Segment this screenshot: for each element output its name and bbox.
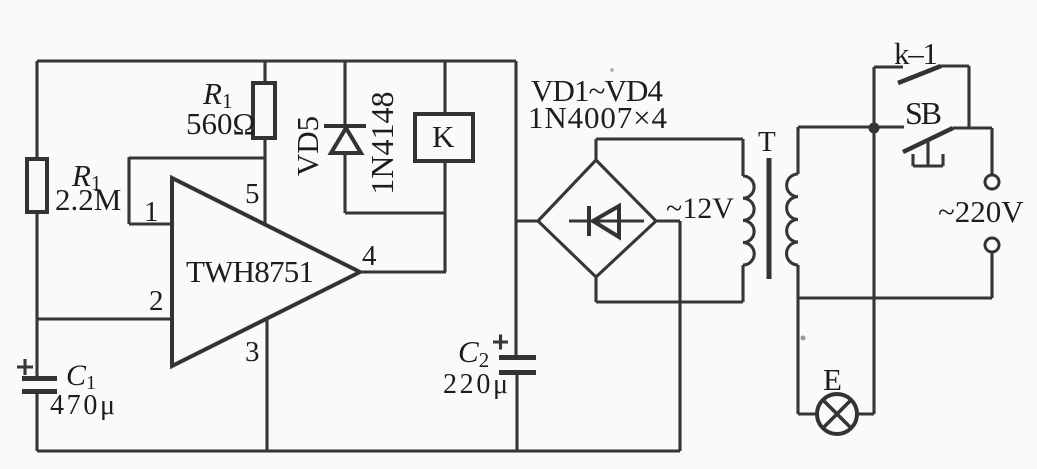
svg-text:2.2M: 2.2M — [55, 182, 121, 217]
svg-text:k–1: k–1 — [894, 36, 938, 71]
svg-text:~12V: ~12V — [666, 192, 734, 225]
svg-text:SB: SB — [905, 95, 942, 131]
svg-text:220μ: 220μ — [443, 369, 508, 400]
svg-text:~220V: ~220V — [938, 194, 1024, 229]
svg-text:VD5: VD5 — [290, 116, 325, 176]
svg-text:4: 4 — [362, 240, 377, 272]
svg-text:K: K — [432, 119, 455, 154]
svg-text:T: T — [758, 126, 776, 158]
svg-text:1N4007×4: 1N4007×4 — [528, 100, 668, 135]
svg-text:E: E — [823, 362, 842, 397]
svg-text:2: 2 — [149, 285, 164, 317]
svg-text:1N4148: 1N4148 — [364, 91, 400, 194]
svg-text:TWH8751: TWH8751 — [186, 254, 314, 289]
svg-text:3: 3 — [245, 336, 260, 368]
svg-text:1: 1 — [144, 196, 159, 228]
svg-text:560Ω: 560Ω — [186, 106, 256, 141]
svg-text:470μ: 470μ — [50, 390, 115, 421]
svg-text:5: 5 — [245, 178, 260, 210]
